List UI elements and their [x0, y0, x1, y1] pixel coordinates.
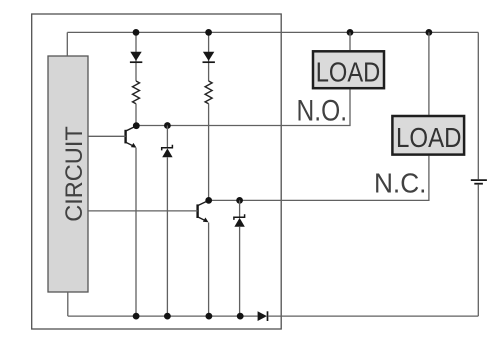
wire: top supply rail [67, 31, 478, 33]
wire: branch 2 upper [208, 32, 210, 81]
wire: ground rail right section [268, 315, 479, 317]
wire: circuit top to supply rail [66, 32, 68, 56]
outer enclosure box [32, 14, 282, 329]
svg-text:CIRCUIT: CIRCUIT [62, 126, 88, 222]
svg-text:LOAD: LOAD [396, 121, 462, 153]
wire: branch 1 upper [135, 32, 137, 81]
wire: battery to ground rail [477, 185, 479, 317]
junction dot: Q1 emitter at rail [133, 313, 140, 320]
svg-text:LOAD: LOAD [316, 55, 381, 87]
diode D2 [203, 52, 215, 62]
transistor Q1 [126, 126, 137, 148]
wire: right supply drop to battery [477, 32, 479, 179]
wire: Z2 upper lead [239, 200, 241, 217]
junction dot: Q2 collector [205, 197, 212, 204]
wire: Q2 emitter to ground rail [208, 223, 210, 317]
wire: Z1 lower lead to ground rail [166, 157, 168, 316]
junction dot: Z2 at rail [237, 313, 244, 320]
wire: resistor R1 to Q1 collector [135, 104, 137, 126]
load box LOAD2 (N.C.) [392, 116, 464, 155]
wire: Q1 emitter to ground rail [135, 148, 137, 316]
wire: circuit bottom to ground rail [67, 292, 69, 316]
wire: LOAD2 top lead [428, 32, 430, 115]
resistor R2 [205, 81, 212, 104]
wire: Q1 base [88, 135, 126, 137]
junction dot: zener Z1 top [164, 122, 171, 129]
wire: LOAD1 top lead [349, 32, 351, 50]
wire: N.C. contact row [209, 156, 429, 201]
transistor Q2 [198, 200, 209, 222]
junction dot: branch 1 at supply [133, 29, 140, 36]
svg-text:N.O.: N.O. [297, 94, 348, 127]
diode D1 [130, 52, 142, 62]
zener diode Z1 [162, 145, 173, 158]
wire: ground rail left section [68, 315, 258, 317]
junction dot: Q2 emitter at rail [206, 313, 213, 320]
wire: N.O. contact row [136, 89, 350, 125]
junction dot: branch 2 at supply [205, 29, 212, 36]
junction dot: Z1 at rail [164, 313, 171, 320]
resistor R1 [133, 81, 140, 104]
junction dot: LOAD1 at supply [347, 29, 354, 36]
svg-text:N.C.: N.C. [374, 167, 427, 198]
CIRCUIT block [48, 56, 88, 292]
junction dot: LOAD2 at supply [426, 29, 433, 36]
wire: Q2 base [88, 210, 198, 212]
diode D3 [258, 311, 268, 321]
battery BT1 [471, 180, 487, 184]
load box LOAD1 (N.O.) [313, 51, 384, 88]
junction dot: zener Z2 top [236, 197, 243, 204]
wire: Z2 lower lead to ground rail [239, 227, 241, 316]
zener diode Z2 [234, 214, 245, 227]
wire: Z1 upper lead [166, 126, 168, 148]
wire: resistor R2 to Q2 collector [208, 104, 210, 201]
junction dot: Q1 collector [133, 122, 140, 129]
